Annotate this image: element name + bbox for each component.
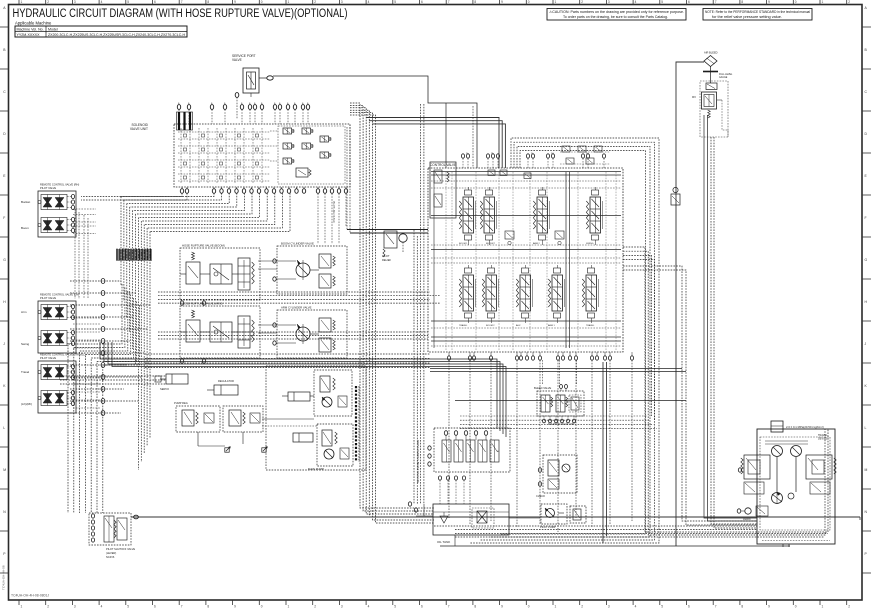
main pump 2 group (308, 424, 353, 471)
pilot manifold spools (442, 440, 499, 462)
wire stems - manifold to tank (440, 486, 464, 504)
pilot shutoff valve label (106, 547, 135, 559)
wire stubs - remote valve group 3 outputs (73, 378, 100, 408)
svg-text:for the relief valve pressure: for the relief valve pressure setting va… (712, 15, 782, 19)
svg-text:P: P (3, 552, 6, 556)
wire bundle - right dashed pair (711, 137, 757, 528)
port - shutoff valve outlet (134, 515, 139, 519)
svg-text:6: 6 (688, 605, 690, 608)
wire fan from pilot valve block to left bundle (81, 193, 290, 232)
svg-text:D: D (865, 132, 868, 136)
svg-text:B: B (865, 48, 868, 52)
pump drive shaft bar (356, 386, 359, 462)
label - swing parking brake vertical (416, 440, 420, 483)
svg-text:SERVO: SERVO (160, 387, 169, 391)
wire crossing dark band (116, 249, 152, 261)
svg-text:1: 1 (555, 605, 557, 608)
svg-text:TRAVEL: TRAVEL (459, 324, 468, 327)
svg-text:1: 1 (21, 605, 23, 608)
svg-text:M: M (3, 468, 6, 472)
travel brake valve right (806, 455, 836, 494)
svg-text:H: H (3, 300, 6, 304)
svg-text:7: 7 (181, 0, 183, 4)
svg-text:TRAVEL: TRAVEL (586, 324, 595, 327)
svg-text:ARM 2: ARM 2 (533, 242, 540, 245)
wire pair - center long horizontals to travel (430, 369, 686, 401)
svg-text:(Lh)(Rh): (Lh)(Rh) (21, 402, 32, 406)
svg-text:N: N (865, 510, 868, 514)
applicable machine table (15, 26, 187, 37)
svg-text:CONTROL VALVE: CONTROL VALVE (430, 163, 456, 167)
svg-text:HYDRAULIC CIRCUIT DIAGRAM (WIT: HYDRAULIC CIRCUIT DIAGRAM (WITH HOSE RUP… (13, 6, 348, 20)
right margin zone letters (862, 6, 871, 573)
control valve section labels (459, 153, 595, 327)
svg-text:A: A (3, 6, 6, 10)
travel device top check box (771, 421, 828, 441)
regulator valve block left (174, 401, 220, 432)
svg-text:5: 5 (127, 605, 129, 608)
svg-text:REMOTE CONTROL VALVE (LH): REMOTE CONTROL VALVE (LH) (40, 293, 79, 297)
shuttle valve cluster (536, 455, 577, 498)
pump displacement arrow left (198, 432, 230, 452)
svg-text:Arm: Arm (21, 310, 27, 314)
hose rupture valve (ARM) (180, 302, 260, 364)
svg-text:BOOM CYLINDER VALVE: BOOM CYLINDER VALVE (281, 242, 314, 246)
pilot manifold top ports (444, 431, 487, 440)
svg-text:RV: RV (692, 95, 696, 99)
wire bundle - lower horizontals to pump (60, 342, 506, 437)
svg-text:3: 3 (74, 605, 76, 608)
solenoid block bottom ports (543, 416, 576, 426)
wire pair - pilot pressure gauge feed (347, 127, 428, 233)
svg-text:3: 3 (341, 0, 343, 4)
svg-text:3: 3 (341, 605, 343, 608)
pump 2 servo piston (293, 433, 313, 442)
wire bundle - top horizontal run into control valve (366, 118, 505, 169)
wire stems - solenoid block to control valve (543, 360, 577, 384)
svg-text:DEVICE: DEVICE (818, 438, 828, 441)
main pump 1 group (314, 370, 352, 416)
bottom margin zone ticks and numbers (19, 600, 850, 608)
svg-text:BUCKET: BUCKET (486, 243, 496, 245)
control valve top right pilot cluster (560, 146, 610, 164)
wire bundle - stair horizontals center right (460, 416, 657, 429)
remote control valve REMOTE CONTROL VALVE (RH) (21, 183, 79, 238)
svg-text:VALVE: VALVE (232, 58, 242, 62)
svg-text:VALVE UNIT: VALVE UNIT (130, 127, 148, 131)
svg-text:C: C (3, 90, 6, 94)
svg-text:8: 8 (207, 0, 209, 4)
svg-text:8: 8 (207, 605, 209, 608)
svg-text:5: 5 (661, 0, 663, 4)
pilot unit solenoid valves cluster (270, 126, 345, 184)
travel device outline (757, 425, 835, 544)
remote control valve REMOTE CONTROL VALVE (LH) (21, 293, 79, 354)
pilot unit lower valve (296, 168, 311, 177)
svg-text:B: B (3, 48, 6, 52)
svg-text:PILOT SHUTOFF VALVE: PILOT SHUTOFF VALVE (106, 547, 135, 551)
svg-text:TC4UA-OH-4H-08-0801J: TC4UA-OH-4H-08-0801J (11, 593, 49, 597)
performance standard note box (703, 9, 812, 21)
svg-text:2: 2 (47, 0, 49, 4)
svg-text:0: 0 (795, 605, 797, 608)
svg-text:1: 1 (288, 605, 290, 608)
svg-text:L: L (3, 426, 5, 430)
travel gear pump (737, 506, 768, 521)
pilot relief valve (570, 506, 586, 523)
pump displacement arrow right (243, 432, 267, 452)
svg-text:3: 3 (74, 0, 76, 4)
pilot pump connection lines (262, 396, 317, 426)
svg-text:PILOT VALVE: PILOT VALVE (40, 356, 56, 360)
wire bundle - bottom dashed runs to travel device (434, 526, 757, 530)
control valve top ports (461, 154, 605, 168)
svg-text:2: 2 (314, 605, 316, 608)
suction strainer lines (416, 504, 540, 518)
svg-text:J: J (3, 342, 5, 346)
svg-text:PILOT PUMP: PILOT PUMP (540, 525, 556, 529)
svg-text:5: 5 (127, 0, 129, 4)
applicable machine label (15, 21, 52, 26)
wire bundle - center-left vertical run (350, 103, 434, 523)
cylinder valve block ARM CYLINDER VALVE (258, 306, 347, 359)
svg-text:REMOTE CONTROL VALVE (RH): REMOTE CONTROL VALVE (RH) (40, 183, 79, 187)
svg-text:9: 9 (501, 0, 503, 4)
label - pilot filter rotated (332, 201, 335, 223)
svg-text:AIR BLEED: AIR BLEED (704, 51, 718, 55)
svg-text:0: 0 (795, 0, 797, 4)
svg-text:ARM CYLINDER VALVE: ARM CYLINDER VALVE (281, 306, 312, 310)
pressure sensor gauge (382, 231, 407, 262)
svg-text:K: K (3, 384, 6, 388)
wire bundle - dashed loops around control valve (470, 138, 659, 543)
svg-text:BLEED VALVE: BLEED VALVE (534, 386, 551, 390)
svg-text:Boom: Boom (21, 226, 29, 230)
svg-text:PUMP REG: PUMP REG (174, 401, 188, 405)
wire - long bottom run from shutoff valve (131, 517, 860, 520)
svg-text:8: 8 (741, 0, 743, 4)
svg-text:8: 8 (741, 605, 743, 608)
svg-text:Swing: Swing (21, 342, 30, 346)
pilot unit top ports (177, 102, 309, 124)
svg-text:9: 9 (234, 605, 236, 608)
svg-text:MAIN PUMP: MAIN PUMP (308, 467, 324, 471)
svg-text:6: 6 (688, 0, 690, 4)
air breather filter diamond (704, 51, 718, 67)
service port shutoff valve (232, 54, 273, 119)
svg-text:Applicable Machine: Applicable Machine (15, 21, 52, 26)
svg-text:6: 6 (421, 605, 423, 608)
svg-text:5: 5 (661, 605, 663, 608)
svg-text:H: H (865, 300, 868, 304)
svg-text:0: 0 (528, 0, 530, 4)
svg-text:D: D (3, 132, 6, 136)
svg-text:7: 7 (448, 605, 450, 608)
main relief valve top right (692, 81, 728, 137)
svg-text:F: F (865, 216, 867, 220)
svg-text:BOOM 1: BOOM 1 (459, 243, 468, 245)
pump 1 servo piston (282, 392, 310, 401)
svg-text:9: 9 (234, 0, 236, 4)
svg-text:DRAIN: DRAIN (743, 518, 751, 521)
svg-text:2.0 ± 0.1 MPa(20.5±1 kgf/cm²): 2.0 ± 0.1 MPa(20.5±1 kgf/cm²) (786, 425, 824, 429)
svg-text:G: G (3, 258, 6, 262)
svg-text:C: C (865, 90, 868, 94)
solenoid pilot valve unit outline (130, 123, 350, 187)
travel counterbalance circles (765, 441, 808, 457)
wire bundle - left pilot lines vertical run (121, 197, 150, 471)
control cylinder upper left (155, 374, 188, 391)
pilot unit accumulator bars (177, 112, 193, 130)
svg-text:SWING: SWING (586, 243, 594, 245)
svg-text:L: L (865, 426, 867, 430)
travel brake valve left (738, 455, 770, 494)
control valve mid relief valves (505, 231, 564, 245)
hose rupture valve (BOOM) (180, 244, 260, 306)
svg-text:Machine Vol. No.: Machine Vol. No. (17, 28, 44, 32)
svg-text:J: J (865, 342, 867, 346)
svg-text:RELIEF: RELIEF (382, 258, 391, 262)
svg-text:To order parts on the drawing,: To order parts on the drawing, be sure t… (563, 15, 668, 19)
svg-text:4: 4 (368, 605, 370, 608)
svg-text:FULL LEVEL: FULL LEVEL (719, 74, 733, 76)
pump assembly outer boundary (266, 366, 366, 470)
svg-text:0: 0 (261, 0, 263, 4)
wire bundle - bottom loop lines (455, 534, 828, 538)
svg-text:SWING PARKING BRAKE RELEASE: SWING PARKING BRAKE RELEASE (416, 440, 420, 483)
regulator valve block right (223, 406, 263, 432)
svg-text:2: 2 (314, 0, 316, 4)
svg-text:1: 1 (288, 0, 290, 4)
wire - service line top (273, 76, 477, 168)
svg-text:NOTE: Refer to the PERFORMANCE: NOTE: Refer to the PERFORMANCE STANDARD … (705, 10, 810, 14)
svg-text:4: 4 (101, 605, 103, 608)
svg-text:6: 6 (154, 0, 156, 4)
main control valve outline (428, 163, 623, 352)
svg-text:ARM 1: ARM 1 (548, 324, 555, 327)
svg-text:4: 4 (635, 0, 637, 4)
svg-text:HOSE RUPTURE VALVE (BOOM): HOSE RUPTURE VALVE (BOOM) (182, 244, 225, 248)
svg-text:Travel: Travel (21, 370, 30, 374)
svg-text:GAUGE: GAUGE (719, 76, 728, 79)
ports - tank suction (408, 502, 417, 512)
svg-text:2: 2 (47, 605, 49, 608)
wire stubs - remote valve group 2 outputs (73, 318, 100, 348)
svg-text:0: 0 (528, 605, 530, 608)
svg-text:2: 2 (581, 0, 583, 4)
wire stubs - remote valve group 1 outputs (73, 209, 96, 299)
pilot filter manifold outline (434, 428, 510, 472)
control valve upper pilot boxes (488, 170, 531, 179)
svg-text:9: 9 (768, 0, 770, 4)
svg-text:OIL TANK: OIL TANK (437, 540, 450, 544)
svg-text:7: 7 (448, 0, 450, 4)
svg-text:4: 4 (368, 0, 370, 4)
svg-text:7: 7 (181, 605, 183, 608)
svg-text:A: A (865, 6, 868, 10)
pilot manifold side ports (428, 446, 431, 466)
svg-text:PILOT: PILOT (382, 254, 390, 258)
pilot manifold lower ports (438, 476, 465, 486)
control valve upper spool row (459, 187, 602, 245)
svg-text:1: 1 (822, 0, 824, 4)
pilot pump unit (540, 504, 567, 529)
control valve left inlet section (430, 162, 456, 218)
svg-text:7: 7 (715, 605, 717, 608)
svg-text:TC4UA-OH-4H-08: TC4UA-OH-4H-08 (2, 565, 6, 590)
svg-text:REMOTE CONTROL VALVE (TRAVEL): REMOTE CONTROL VALVE (TRAVEL) (40, 353, 86, 357)
pilot shutoff valve block (89, 513, 131, 545)
wire pair - control valve drain drop (603, 362, 607, 543)
svg-text:F: F (3, 216, 5, 220)
svg-text:6: 6 (421, 0, 423, 4)
control valve bottom ports (447, 352, 633, 360)
svg-text:1: 1 (822, 605, 824, 608)
svg-text:5: 5 (394, 605, 396, 608)
left margin zone letters (0, 6, 9, 573)
travel motor (772, 457, 797, 504)
svg-text:Bucket: Bucket (21, 200, 30, 204)
svg-text:M: M (865, 468, 868, 472)
svg-text:0: 0 (261, 605, 263, 608)
remote control valve REMOTE CONTROL VALVE (TRAVEL) (21, 353, 86, 414)
svg-text:9: 9 (501, 605, 503, 608)
svg-text:⚠CAUTION: Parts numbers on the: ⚠CAUTION: Parts numbers on the drawing a… (549, 10, 684, 14)
pilot unit bottom ports (180, 187, 347, 193)
svg-text:SOLENOID VALVE UNIT: SOLENOID VALVE UNIT (548, 423, 575, 426)
wire stems - pilot unit right ports to cylinder valves (318, 194, 346, 245)
svg-text:CHECK: CHECK (536, 494, 545, 498)
wire bundle - pilot lines stepping to shutoff valve (68, 284, 139, 513)
hydraulic oil tank (433, 504, 790, 546)
svg-text:5: 5 (394, 0, 396, 4)
control valve internal gallery lines (431, 172, 621, 351)
svg-text:9: 9 (768, 605, 770, 608)
svg-text:4: 4 (101, 0, 103, 4)
svg-text:6: 6 (154, 605, 156, 608)
control valve lower spool row (459, 265, 598, 323)
cylinder valve block BOOM CYLINDER VALVE (258, 242, 347, 295)
wire bundle - mid horizontal runs crossing center (145, 292, 440, 368)
wire - main return line right side (676, 62, 704, 546)
svg-text:2: 2 (848, 0, 850, 4)
svg-text:BOOM 2: BOOM 2 (486, 325, 495, 327)
svg-text:1: 1 (21, 0, 23, 4)
svg-text:AUX: AUX (516, 324, 521, 327)
caution note box (547, 9, 686, 21)
svg-text:2: 2 (581, 605, 583, 608)
svg-text:PILOT VALVE: PILOT VALVE (40, 296, 56, 300)
svg-text:3: 3 (608, 0, 610, 4)
svg-text:4: 4 (635, 605, 637, 608)
wire bundle - left distribution lines to lower remote valves (70, 279, 150, 416)
svg-text:(LEVER): (LEVER) (106, 551, 116, 555)
svg-text:K: K (865, 384, 868, 388)
wire bundle - control valve to right vertical run upper (623, 247, 828, 535)
svg-text:PILOT VALVE: PILOT VALVE (40, 186, 56, 190)
svg-text:2: 2 (848, 605, 850, 608)
wire bundle - pilot manifold feed lines (414, 104, 424, 504)
signal control solenoid block (534, 385, 584, 417)
wire bundle - travel pilot lines right side (704, 115, 757, 521)
top margin zone ticks and numbers (19, 0, 850, 5)
travel device bottom lines (762, 541, 830, 548)
svg-text:1: 1 (555, 0, 557, 4)
control cylinder second (207, 379, 238, 395)
svg-text:Model: Model (48, 28, 58, 32)
svg-text:E: E (865, 174, 868, 178)
svg-text:PILOT LINE FILTER: PILOT LINE FILTER (332, 201, 335, 223)
title text (13, 6, 348, 20)
svg-text:NC4V6: NC4V6 (106, 555, 115, 559)
pilot unit internal grid (178, 128, 270, 183)
svg-text:E: E (3, 174, 6, 178)
wire bundle - control valve to swing lines (623, 266, 757, 525)
svg-text:REGULATOR: REGULATOR (218, 379, 234, 383)
rotated filing text left margin (2, 565, 6, 590)
svg-text:HOSE RUPTURE VALVE (ARM): HOSE RUPTURE VALVE (ARM) (182, 302, 223, 306)
svg-text:8: 8 (474, 0, 476, 4)
svg-text:YY2M-XXXXX: YY2M-XXXXX (17, 33, 41, 37)
svg-text:P: P (865, 552, 868, 556)
check valve right of control valve (671, 187, 680, 205)
breather tank symbol (703, 67, 733, 84)
svg-text:3: 3 (608, 605, 610, 608)
wire bundle - control valve bottom port drops (449, 360, 632, 532)
svg-text:7: 7 (715, 0, 717, 4)
drawing number text bottom left (11, 593, 49, 597)
svg-text:G: G (865, 258, 868, 262)
svg-text:8: 8 (474, 605, 476, 608)
svg-text:ZX200-3CLC-H,ZX225US-3CLC-H,ZX: ZX200-3CLC-H,ZX225US-3CLC-H,ZX225USR-3CL… (48, 33, 185, 37)
svg-text:N: N (3, 510, 6, 514)
